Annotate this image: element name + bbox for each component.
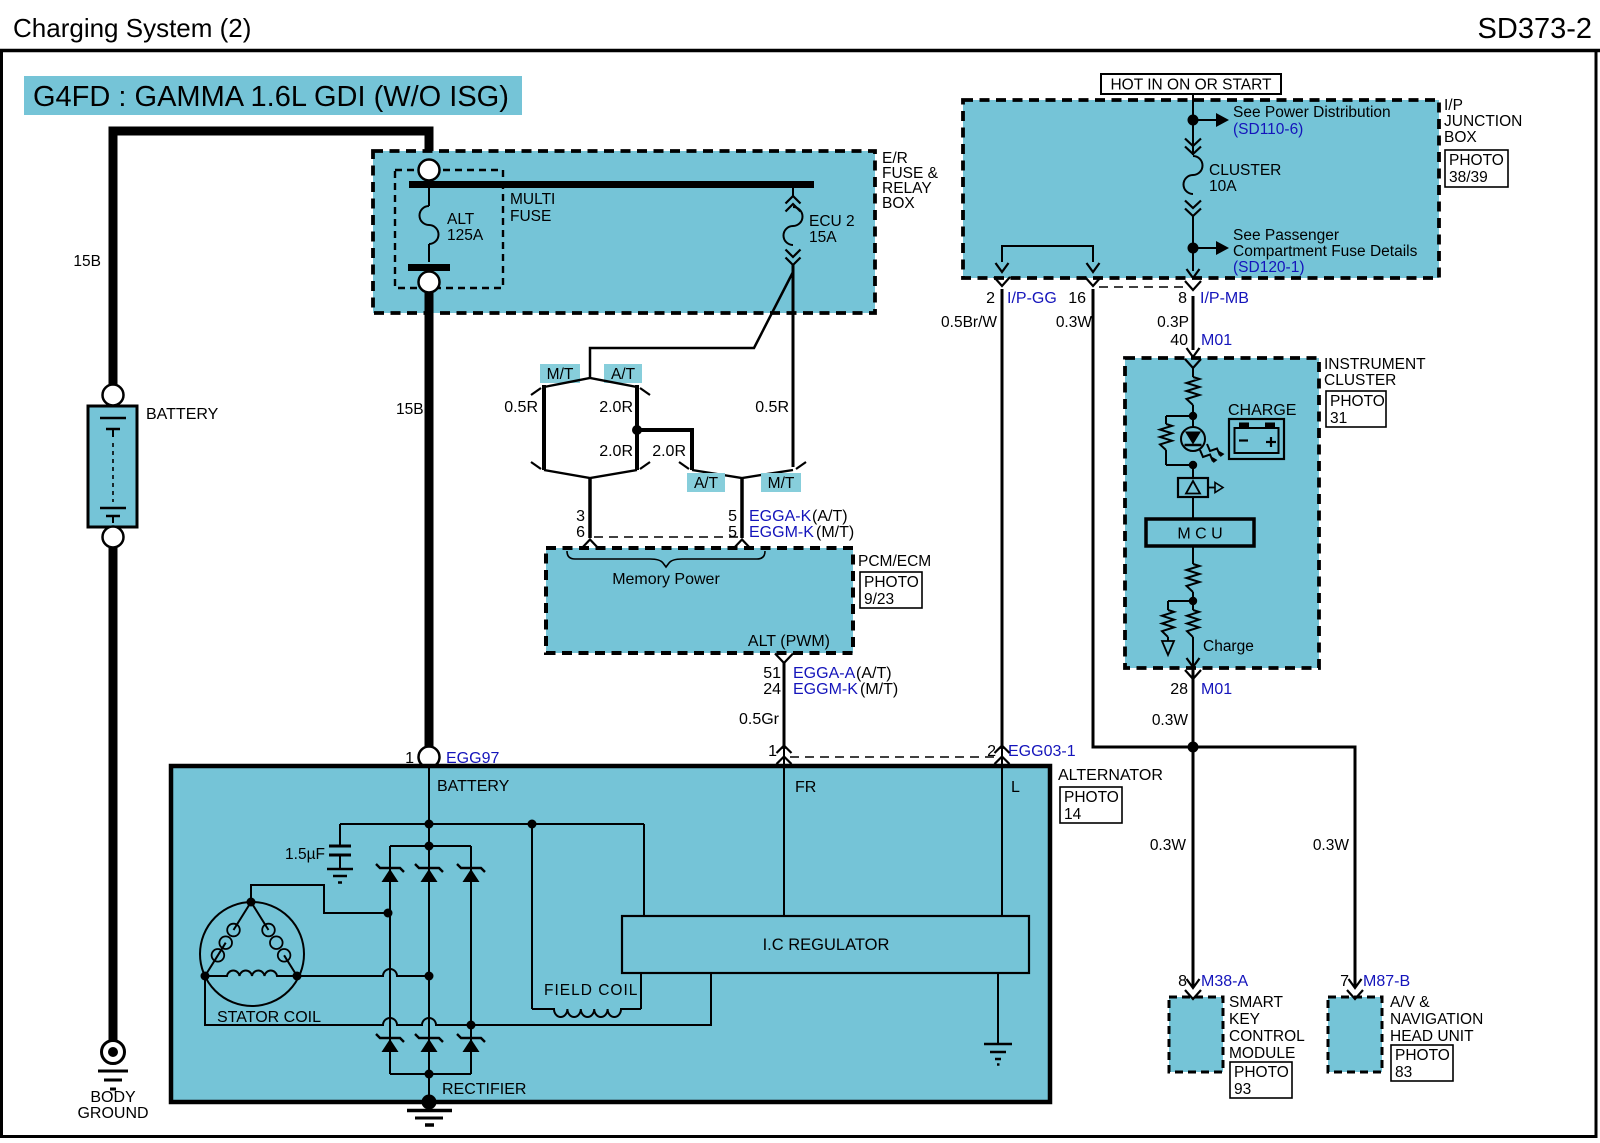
svg-text:INSTRUMENT: INSTRUMENT xyxy=(1324,356,1426,373)
svg-text:I.C REGULATOR: I.C REGULATOR xyxy=(763,936,890,954)
svg-text:16: 16 xyxy=(1068,290,1086,307)
wire branch A/T 2.0R xyxy=(635,385,639,470)
I/P exit connector pin 2 xyxy=(996,263,1009,272)
connector dashed link I/P xyxy=(1099,286,1188,288)
diode D2 xyxy=(415,864,443,872)
PCM photo box xyxy=(860,572,922,608)
svg-text:ALTERNATOR: ALTERNATOR xyxy=(1058,767,1163,784)
svg-text:G4FD : GAMMA 1.6L GDI (W/O ISG: G4FD : GAMMA 1.6L GDI (W/O ISG) xyxy=(33,81,509,113)
body ground symbol xyxy=(102,1041,125,1064)
alternator top rail xyxy=(340,823,644,825)
svg-text:I/P-MB: I/P-MB xyxy=(1200,290,1249,307)
svg-text:EGGA-K: EGGA-K xyxy=(749,508,812,525)
wire below cluster fuse xyxy=(1192,216,1194,271)
wire branch M/T 0.5R xyxy=(542,385,546,470)
cluster entry connector xyxy=(1187,348,1200,357)
wire buffer to MCU xyxy=(1192,497,1194,519)
wire A/T branch corner to second branch xyxy=(637,430,692,470)
wire to PCM pin 5/5 xyxy=(740,478,744,538)
svg-text:L: L xyxy=(1011,779,1020,796)
svg-text:0.5Br/W: 0.5Br/W xyxy=(941,314,997,331)
I/P internal jumper wire xyxy=(1002,246,1093,262)
smart key control module box xyxy=(1169,997,1223,1072)
alternator FR connector chevrons xyxy=(777,746,792,754)
wire ECU2 fuse down (0.5R M/T branch) xyxy=(792,265,795,467)
lamp emission arrows xyxy=(1200,450,1213,462)
diode D1 xyxy=(376,864,404,872)
svg-text:SMART: SMART xyxy=(1229,994,1284,1011)
wire to lower node xyxy=(1192,592,1194,610)
instrument cluster box xyxy=(1125,358,1319,668)
M87-B entry connector xyxy=(1349,979,1362,988)
diode column left xyxy=(389,846,391,1074)
stator winding left side xyxy=(205,902,251,976)
wire into I/P box xyxy=(1192,94,1194,155)
svg-text:RECTIFIER: RECTIFIER xyxy=(442,1081,526,1098)
svg-text:Charge: Charge xyxy=(1203,638,1254,655)
svg-text:(M/T): (M/T) xyxy=(816,524,854,541)
node lower branch xyxy=(1189,597,1197,605)
memory power brace xyxy=(567,551,765,567)
E/R fuse and relay box xyxy=(373,151,875,313)
bus bar in E/R box (thick) xyxy=(409,181,814,188)
wire MCU down xyxy=(1192,546,1194,564)
engine label box G4FD xyxy=(24,76,522,115)
wire ECU2 diagonal to A/T-M/T split xyxy=(590,272,793,378)
MCU box xyxy=(1146,519,1254,546)
regulator ground symbol xyxy=(984,1043,1012,1046)
stator node bottom left xyxy=(201,972,210,981)
svg-text:0.3W: 0.3W xyxy=(1056,314,1093,331)
diode column right xyxy=(470,846,472,1074)
PCM/ECM box xyxy=(546,548,853,653)
svg-text:M01: M01 xyxy=(1201,681,1232,698)
svg-text:JUNCTION: JUNCTION xyxy=(1444,113,1522,130)
alternator box xyxy=(171,766,1050,1102)
svg-text:MULTI: MULTI xyxy=(510,191,555,208)
svg-text:EGGM-K: EGGM-K xyxy=(793,681,858,698)
svg-text:ECU 2: ECU 2 xyxy=(809,213,855,230)
node phase2 xyxy=(425,972,434,981)
diode D6 xyxy=(457,1034,485,1042)
wire 15B ALT fuse to EGG97 (thick) xyxy=(425,292,434,747)
svg-text:5: 5 xyxy=(728,508,737,525)
wire 0.5Gr PCM to alternator FR xyxy=(783,663,786,749)
svg-text:8: 8 xyxy=(1178,973,1187,990)
stator node bottom right xyxy=(293,972,302,981)
node below lamp xyxy=(1189,461,1197,469)
alternator L connector chevrons xyxy=(995,746,1010,754)
charge lamp LED xyxy=(1181,427,1205,451)
wire 0.3W cluster to junction xyxy=(1192,668,1195,747)
wire FR into regulator xyxy=(783,748,785,916)
cluster photo box xyxy=(1326,391,1386,427)
svg-text:A/T: A/T xyxy=(694,475,719,492)
svg-text:(SD120-1): (SD120-1) xyxy=(1233,259,1305,276)
multi fuse box xyxy=(395,170,503,288)
svg-text:PHOTO: PHOTO xyxy=(1064,789,1119,806)
node diode rail xyxy=(425,842,434,851)
svg-text:0.3W: 0.3W xyxy=(1152,712,1189,729)
wire junction to M38-A xyxy=(1192,747,1195,988)
AV photo box xyxy=(1391,1045,1453,1081)
node: 15B wire entering E/R box xyxy=(419,160,440,181)
wire stator phase2 to middle column xyxy=(297,969,429,976)
svg-text:GROUND: GROUND xyxy=(77,1105,148,1122)
chip M/T (bottom) xyxy=(761,473,801,492)
svg-text:A/T: A/T xyxy=(611,366,636,383)
PCM entry connector right xyxy=(733,540,751,550)
svg-text:BOX: BOX xyxy=(1444,129,1477,146)
svg-text:0.5Gr: 0.5Gr xyxy=(739,711,780,728)
svg-text:EGG03-1: EGG03-1 xyxy=(1008,743,1076,760)
svg-text:PHOTO: PHOTO xyxy=(1449,152,1504,169)
svg-text:BOX: BOX xyxy=(882,195,915,212)
svg-text:0.3W: 0.3W xyxy=(1313,837,1350,854)
wire rail to regulator top xyxy=(643,824,645,916)
svg-text:Compartment Fuse Details: Compartment Fuse Details xyxy=(1233,243,1418,260)
split symbol to M/T and A/T branches xyxy=(544,378,637,387)
svg-text:ALT (PWM): ALT (PWM) xyxy=(748,633,830,650)
svg-text:M87-B: M87-B xyxy=(1363,973,1410,990)
wire regulator to ground xyxy=(997,973,999,1044)
rectifier ground symbol xyxy=(407,1109,452,1113)
arrow see power distribution xyxy=(1193,119,1216,121)
fuse CLUSTER 10A with connectors xyxy=(1185,139,1201,147)
battery bottom terminal node xyxy=(103,527,124,548)
smart key photo box xyxy=(1230,1062,1292,1098)
svg-text:0.3W: 0.3W xyxy=(1150,837,1187,854)
node battery rail xyxy=(425,820,434,829)
I/P photo box xyxy=(1445,150,1508,187)
stator winding right side xyxy=(251,902,297,976)
svg-text:HEAD UNIT: HEAD UNIT xyxy=(1390,1028,1474,1045)
svg-text:38/39: 38/39 xyxy=(1449,169,1488,186)
svg-text:M01: M01 xyxy=(1201,332,1232,349)
wire to PCM pin 3/6 xyxy=(588,478,592,538)
title rule and page border xyxy=(0,49,1600,53)
wire EGG97 into alternator xyxy=(428,767,430,846)
svg-text:2.0R: 2.0R xyxy=(599,443,633,460)
I/P junction box xyxy=(963,100,1439,278)
svg-text:(A/T): (A/T) xyxy=(812,508,848,525)
svg-text:0.5R: 0.5R xyxy=(755,399,789,416)
chip M/T (top) xyxy=(540,364,580,383)
stator coil circle xyxy=(200,902,304,1006)
svg-text:BODY: BODY xyxy=(90,1089,136,1106)
svg-text:40: 40 xyxy=(1170,332,1188,349)
svg-text:BATTERY: BATTERY xyxy=(146,406,219,423)
svg-text:15B: 15B xyxy=(396,401,424,418)
svg-text:CLUSTER: CLUSTER xyxy=(1324,372,1396,389)
IC regulator U2 xyxy=(622,916,1029,973)
chip A/T (top) xyxy=(604,364,642,383)
svg-text:3: 3 xyxy=(576,508,585,525)
wire 0.3W pin16 down and right xyxy=(1093,289,1193,747)
svg-text:2: 2 xyxy=(986,290,995,307)
svg-text:CHARGE: CHARGE xyxy=(1228,402,1296,419)
svg-text:See Passenger: See Passenger xyxy=(1233,227,1339,244)
battery top terminal node xyxy=(103,385,124,406)
svg-text:0.3P: 0.3P xyxy=(1157,314,1189,331)
wire 0.5Br/W I/P-GG to alternator L xyxy=(1001,289,1004,749)
node bottom rail xyxy=(425,1070,434,1079)
diode D3 xyxy=(457,864,485,872)
svg-text:2.0R: 2.0R xyxy=(599,399,633,416)
wire L into regulator xyxy=(1001,748,1003,916)
wire junction to M87-B corner xyxy=(1193,747,1355,988)
svg-text:14: 14 xyxy=(1064,806,1082,823)
svg-text:CLUSTER: CLUSTER xyxy=(1209,162,1281,179)
svg-text:PHOTO: PHOTO xyxy=(1330,393,1385,410)
svg-text:0.5R: 0.5R xyxy=(504,399,538,416)
resistor charge output xyxy=(1187,610,1199,637)
diode bottom rail xyxy=(390,1073,471,1075)
wire to LED xyxy=(1192,405,1194,428)
svg-text:5: 5 xyxy=(728,524,737,541)
svg-text:6: 6 xyxy=(576,524,585,541)
svg-text:Memory Power: Memory Power xyxy=(612,571,720,588)
field coil L2 xyxy=(531,824,533,1009)
svg-text:93: 93 xyxy=(1234,1081,1251,1098)
I/P exit connector pin 16 xyxy=(1087,263,1100,272)
svg-text:NAVIGATION: NAVIGATION xyxy=(1390,1011,1483,1028)
wire rectifier to ground xyxy=(428,1074,430,1102)
battery BAT1 xyxy=(88,406,137,527)
AV navigation head unit box xyxy=(1328,997,1382,1072)
buffer U1 xyxy=(1178,478,1208,497)
svg-text:Charging System (2): Charging System (2) xyxy=(13,13,251,43)
svg-text:8: 8 xyxy=(1178,290,1187,307)
diode top rail xyxy=(390,845,471,847)
fuse ECU 2 15A with connectors xyxy=(792,188,794,196)
svg-text:I/P: I/P xyxy=(1444,97,1463,114)
svg-text:7: 7 xyxy=(1340,973,1349,990)
node field coil rail xyxy=(528,820,537,829)
resistor parallel to lamp xyxy=(1166,415,1193,417)
wire 0.3P pin8 to cluster xyxy=(1192,296,1195,350)
svg-text:See Power Distribution: See Power Distribution xyxy=(1233,104,1391,121)
junction on A/T branch xyxy=(632,425,642,435)
svg-text:HOT IN ON OR START: HOT IN ON OR START xyxy=(1110,77,1272,94)
cluster exit wire and connector xyxy=(1192,637,1194,667)
svg-text:KEY: KEY xyxy=(1229,1011,1260,1028)
svg-text:125A: 125A xyxy=(447,227,484,244)
junction node smart key branch xyxy=(1188,742,1199,753)
node phase1 xyxy=(384,909,393,918)
svg-text:PCM/ECM: PCM/ECM xyxy=(858,553,931,570)
svg-text:M C U: M C U xyxy=(1177,526,1222,543)
wire stator phase1 to left column xyxy=(251,885,390,913)
M38-A entry connector xyxy=(1187,979,1200,988)
svg-text:CONTROL: CONTROL xyxy=(1229,1028,1305,1045)
PCM exit connector ALT PWM xyxy=(775,654,793,664)
node: ALT fuse output xyxy=(419,272,440,293)
wire stator phase3 to right column and regulator xyxy=(205,973,711,1025)
alternator photo box xyxy=(1060,787,1122,823)
node: power distribution tap xyxy=(1188,115,1199,126)
chip A/T (bottom) xyxy=(687,473,725,492)
merge symbol left pair xyxy=(544,470,637,478)
wire battery to body ground (thick) xyxy=(109,547,118,1040)
svg-text:I/P-GG: I/P-GG xyxy=(1007,290,1057,307)
wire 15B battery to E/R box (thick) xyxy=(113,131,429,392)
svg-text:(A/T): (A/T) xyxy=(856,665,892,682)
svg-text:1: 1 xyxy=(768,743,777,760)
merge symbol right pair xyxy=(692,470,793,478)
resistor cluster top xyxy=(1187,377,1200,405)
node: passenger compartment tap xyxy=(1188,243,1199,254)
svg-text:M/T: M/T xyxy=(768,475,795,492)
diode D5 xyxy=(415,1034,443,1042)
svg-text:51: 51 xyxy=(763,665,781,682)
node above lamp xyxy=(1189,412,1197,420)
svg-text:31: 31 xyxy=(1330,410,1347,427)
svg-text:PHOTO: PHOTO xyxy=(1234,1064,1289,1081)
svg-text:FR: FR xyxy=(795,779,816,796)
node phase3 xyxy=(467,1021,476,1030)
stator node top xyxy=(247,898,256,907)
PCM entry connector left xyxy=(581,540,599,550)
connector EGG97 pin 1 xyxy=(419,747,440,768)
svg-text:SD373-2: SD373-2 xyxy=(1478,13,1592,45)
svg-text:15B: 15B xyxy=(73,253,101,270)
resistor to internal ground xyxy=(1168,600,1193,602)
connector dashed link at PCM xyxy=(594,536,742,538)
svg-text:(SD110-6): (SD110-6) xyxy=(1233,121,1303,138)
fuse ALT 125A xyxy=(428,188,430,206)
arrow see passenger compartment xyxy=(1193,247,1216,249)
I/P exit connector pin 8 xyxy=(1187,269,1200,278)
resistor below MCU xyxy=(1187,564,1200,592)
node rectifier ground xyxy=(422,1095,437,1110)
svg-text:PHOTO: PHOTO xyxy=(864,574,919,591)
HOT IN ON OR START box xyxy=(1101,74,1281,94)
svg-text:M/T: M/T xyxy=(547,366,574,383)
svg-text:28: 28 xyxy=(1170,681,1188,698)
svg-text:STATOR COIL: STATOR COIL xyxy=(217,1009,321,1026)
stator winding bottom side xyxy=(205,970,297,976)
svg-text:PHOTO: PHOTO xyxy=(1395,1047,1450,1064)
svg-text:EGGM-K: EGGM-K xyxy=(749,524,814,541)
svg-text:83: 83 xyxy=(1395,1064,1412,1081)
diode column middle xyxy=(428,846,430,1074)
svg-text:1.5µF: 1.5µF xyxy=(285,846,325,863)
svg-text:15A: 15A xyxy=(809,229,837,246)
wire cluster top xyxy=(1192,368,1194,377)
svg-text:M38-A: M38-A xyxy=(1201,973,1248,990)
svg-text:BATTERY: BATTERY xyxy=(437,778,510,795)
svg-text:FIELD COIL: FIELD COIL xyxy=(544,982,638,999)
charge battery icon xyxy=(1229,419,1284,459)
svg-text:9/23: 9/23 xyxy=(864,591,894,608)
wire lamp to buffer xyxy=(1192,465,1194,478)
svg-text:EGGA-A: EGGA-A xyxy=(793,665,856,682)
svg-text:2.0R: 2.0R xyxy=(652,443,686,460)
svg-text:MODULE: MODULE xyxy=(1229,1045,1295,1062)
capacitor C1 1.5uF xyxy=(339,824,341,846)
svg-text:10A: 10A xyxy=(1209,178,1237,195)
svg-text:FUSE: FUSE xyxy=(510,208,551,225)
svg-text:ALT: ALT xyxy=(447,211,475,228)
svg-text:24: 24 xyxy=(763,681,781,698)
svg-text:(M/T): (M/T) xyxy=(860,681,898,698)
diode D4 xyxy=(376,1034,404,1042)
dashed link FR to L connector xyxy=(790,756,996,758)
svg-text:A/V &: A/V & xyxy=(1390,994,1430,1011)
